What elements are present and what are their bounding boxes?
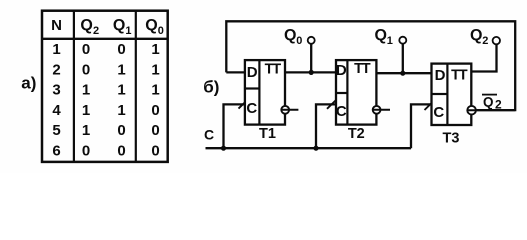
- svg-text:1: 1: [151, 61, 159, 78]
- svg-text:1: 1: [117, 82, 125, 99]
- svg-text:T1: T1: [259, 126, 276, 142]
- svg-text:0: 0: [117, 143, 125, 160]
- svg-text:5: 5: [52, 122, 60, 139]
- svg-text:Q: Q: [113, 17, 125, 34]
- svg-text:1: 1: [117, 61, 125, 78]
- svg-text:TT: TT: [451, 68, 468, 84]
- svg-text:N: N: [51, 17, 62, 34]
- svg-text:0: 0: [82, 41, 90, 58]
- svg-text:D: D: [247, 64, 258, 81]
- svg-text:Q: Q: [470, 27, 482, 44]
- svg-text:1: 1: [151, 41, 159, 58]
- svg-text:T3: T3: [443, 131, 460, 147]
- svg-text:1: 1: [125, 25, 131, 37]
- svg-text:2: 2: [482, 35, 488, 47]
- svg-text:б): б): [203, 77, 219, 96]
- svg-text:1: 1: [117, 102, 125, 119]
- svg-text:1: 1: [151, 82, 159, 99]
- svg-text:0: 0: [82, 143, 90, 160]
- svg-text:Q: Q: [483, 94, 494, 109]
- svg-text:C: C: [433, 104, 444, 121]
- svg-text:D: D: [336, 62, 347, 79]
- svg-text:Q: Q: [145, 17, 157, 34]
- svg-text:0: 0: [82, 61, 90, 78]
- svg-text:0: 0: [117, 122, 125, 139]
- svg-text:C: C: [204, 126, 214, 142]
- svg-text:2: 2: [495, 98, 502, 112]
- svg-text:T2: T2: [348, 126, 365, 142]
- svg-text:0: 0: [117, 41, 125, 58]
- svg-text:1: 1: [52, 41, 60, 58]
- svg-text:1: 1: [82, 122, 90, 139]
- svg-text:0: 0: [151, 102, 159, 119]
- svg-text:2: 2: [52, 61, 60, 78]
- svg-text:TT: TT: [354, 61, 371, 77]
- svg-text:Q: Q: [80, 17, 92, 34]
- svg-text:0: 0: [158, 25, 164, 37]
- svg-text:6: 6: [52, 143, 60, 160]
- svg-text:TT: TT: [265, 61, 282, 77]
- svg-text:а): а): [21, 73, 36, 92]
- svg-text:2: 2: [93, 25, 99, 37]
- svg-text:0: 0: [151, 122, 159, 139]
- svg-text:Q: Q: [375, 27, 387, 44]
- svg-text:1: 1: [387, 35, 393, 47]
- svg-text:0: 0: [296, 35, 302, 47]
- svg-text:D: D: [435, 67, 446, 84]
- svg-text:C: C: [246, 100, 257, 117]
- svg-text:4: 4: [52, 102, 61, 119]
- svg-text:0: 0: [151, 143, 159, 160]
- svg-text:3: 3: [52, 82, 60, 99]
- svg-text:C: C: [336, 103, 347, 120]
- svg-text:Q: Q: [284, 27, 296, 44]
- svg-text:1: 1: [82, 82, 90, 99]
- svg-text:1: 1: [82, 102, 90, 119]
